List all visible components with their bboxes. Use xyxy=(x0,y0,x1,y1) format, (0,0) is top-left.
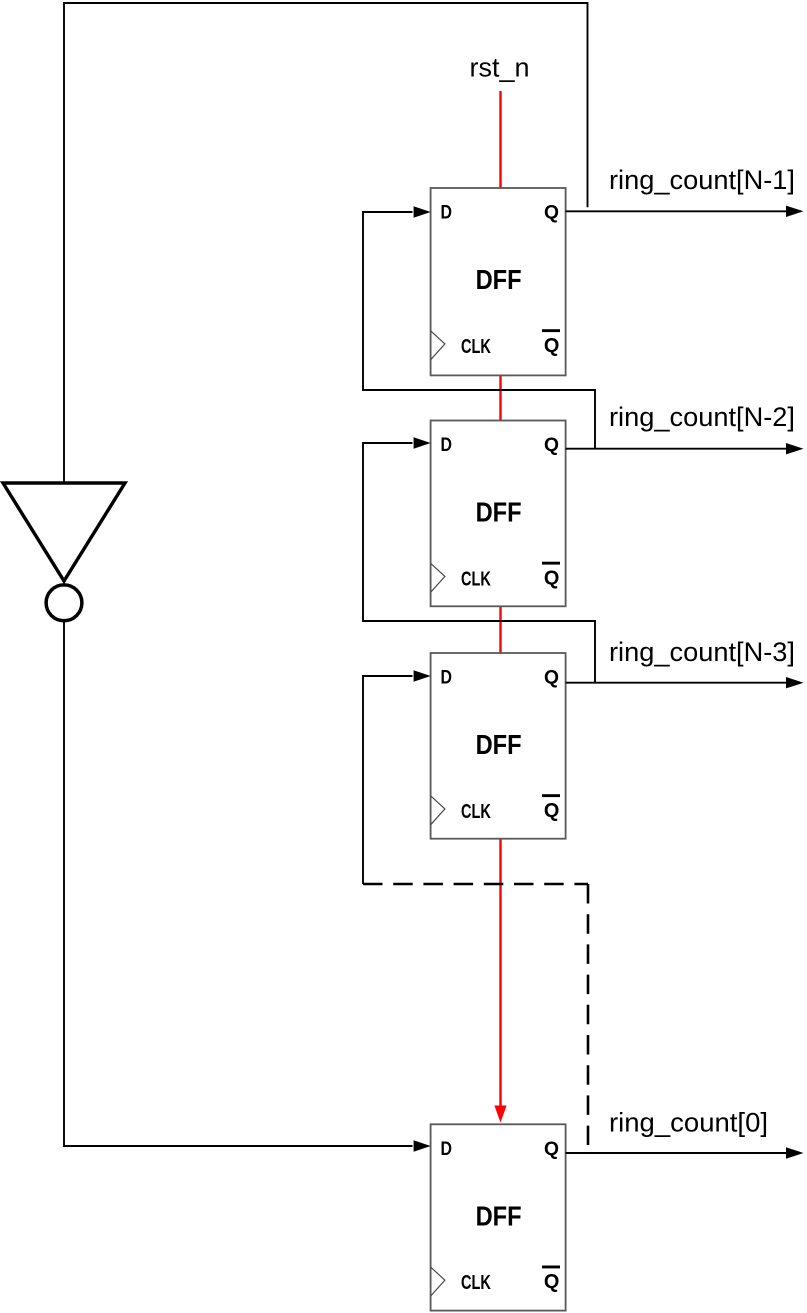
svg-text:Q: Q xyxy=(544,566,560,589)
svg-text:DFF: DFF xyxy=(476,729,522,760)
clock wedge U3 xyxy=(431,796,445,825)
arrowhead into D of U4 xyxy=(414,1140,431,1151)
flip-flop U4 (DFF, ring_count[0]) box xyxy=(431,1124,566,1310)
svg-text:CLK: CLK xyxy=(461,567,491,590)
svg-text:Q: Q xyxy=(544,799,560,822)
svg-text:Q: Q xyxy=(544,1270,560,1293)
arrowhead rst_n into DFF4 clock/reset xyxy=(494,1106,506,1123)
wire Q output of U2: ring_count[N-2] xyxy=(566,448,787,450)
wire Q output of U1: ring_count[N-1] xyxy=(566,210,787,212)
arrowhead into D of U1 xyxy=(414,206,431,217)
wire solid part of Q0 feedback to D of U3 xyxy=(363,676,413,884)
flip-flop U3 (DFF, ring_count[N-3]) box xyxy=(431,653,566,839)
wire Q output of U4: ring_count[0] xyxy=(566,1152,787,1154)
svg-text:rst_n: rst_n xyxy=(469,53,529,83)
flip-flop U1 (DFF, ring_count[N-1]) box xyxy=(431,188,566,375)
svg-text:Q: Q xyxy=(544,203,559,224)
inverter U5 triangle xyxy=(3,483,125,581)
clock wedge U1 xyxy=(431,331,445,360)
wire Q output of U3: ring_count[N-3] xyxy=(566,682,787,684)
svg-text:D: D xyxy=(441,435,453,456)
clock wedge U2 xyxy=(431,563,445,592)
svg-text:CLK: CLK xyxy=(461,1271,491,1294)
wire feedback Q of U3 to D of U2 xyxy=(363,443,595,683)
svg-text:Q: Q xyxy=(544,668,559,689)
wire dashed vertical down to ring_count[0] node xyxy=(587,884,590,1145)
svg-text:Q: Q xyxy=(544,1139,559,1160)
svg-text:D: D xyxy=(441,203,453,224)
arrowhead into D of U2 xyxy=(414,437,431,448)
wire rst_n vertical (red) xyxy=(499,91,501,1106)
arrowhead ring_count[N-2] xyxy=(786,443,804,454)
svg-text:CLK: CLK xyxy=(461,800,491,823)
svg-text:D: D xyxy=(441,1139,453,1160)
svg-text:Q: Q xyxy=(544,435,559,456)
svg-text:CLK: CLK xyxy=(461,335,491,358)
arrowhead into D of U3 xyxy=(414,670,431,681)
clock wedge U4 xyxy=(431,1267,445,1296)
wire dashed continuation (Q0 feedback to D of DFF3) xyxy=(363,883,588,886)
svg-text:ring_count[N-1]: ring_count[N-1] xyxy=(609,165,795,195)
arrowhead ring_count[N-3] xyxy=(786,677,804,688)
wire feedback Q of U2 to D of U1 xyxy=(363,212,595,449)
svg-text:DFF: DFF xyxy=(476,264,522,295)
svg-text:DFF: DFF xyxy=(476,497,522,528)
wire feedback loop: Q of U1 up over the top and down to inverter input xyxy=(64,3,588,482)
svg-text:ring_count[0]: ring_count[0] xyxy=(609,1108,768,1138)
inverter U5 bubble xyxy=(46,585,82,621)
flip-flop U2 (DFF, ring_count[N-2]) box xyxy=(431,421,566,607)
arrowhead ring_count[0] xyxy=(786,1147,804,1158)
svg-text:D: D xyxy=(441,668,453,689)
svg-text:Q: Q xyxy=(544,334,560,357)
wire inverter output down to D of U4 xyxy=(64,622,413,1146)
arrowhead ring_count[N-1] xyxy=(786,206,804,217)
svg-text:ring_count[N-2]: ring_count[N-2] xyxy=(609,402,795,432)
svg-text:DFF: DFF xyxy=(476,1200,522,1231)
svg-text:ring_count[N-3]: ring_count[N-3] xyxy=(609,637,795,667)
